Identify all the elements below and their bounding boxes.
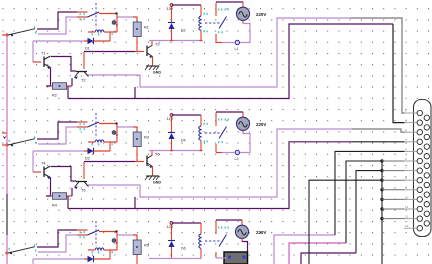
svg-text:13: 13	[405, 224, 409, 228]
wire R4 right lead	[67, 195, 73, 197]
wire base feed (violet vertical)	[32, 151, 34, 172]
wire AC source top lead	[242, 2, 244, 8]
wire collector rail 3 (violet)	[149, 258, 201, 260]
relay K1 link (dashed)	[95, 3, 97, 28]
relay K2 link (dashed)	[95, 113, 97, 138]
svg-text:T1: T1	[41, 52, 45, 56]
svg-text:12V: 12V	[167, 225, 174, 229]
wire diode-to-coil vertical	[109, 142, 111, 151]
wire net A2 gray section	[352, 129, 405, 132]
wire relay coil bottom lead	[200, 141, 202, 151]
connector J1 pins 14-25	[424, 115, 429, 120]
power 12V node 3	[170, 222, 173, 225]
wire R2 left lead	[46, 85, 53, 87]
svg-text:T5: T5	[81, 189, 85, 193]
wire net A2: T5 to port (violet)	[88, 129, 352, 197]
ground GND 2	[145, 176, 159, 180]
pin label contact RL2 bottom	[218, 141, 219, 143]
node bus junction 7	[380, 217, 383, 220]
net flag arrow	[2, 132, 7, 134]
wire ground bus vertical	[381, 160, 383, 264]
node bus junction 5	[380, 198, 383, 201]
pin label coil K3	[92, 251, 93, 253]
wire bus lead 7	[382, 218, 405, 220]
node junction	[115, 12, 117, 14]
switch S3 blade	[8, 247, 35, 253]
wire net B1 verticals (dark purple)	[134, 87, 136, 99]
pin label coil RL2	[204, 123, 205, 125]
relay K2 contact blade	[88, 122, 100, 127]
wire net B1: to port (dark purple)	[68, 24, 393, 99]
switch S3 pivot	[10, 252, 12, 254]
wire base red lead	[135, 51, 144, 53]
svg-text:11: 11	[405, 205, 408, 209]
wire T1 base red lead	[33, 61, 41, 63]
wire dark overlay segment on rail	[6, 194, 8, 235]
wire 12V to relay coil (purple)	[172, 114, 202, 116]
wire net B2 verticals (dark purple)	[134, 197, 136, 209]
wire net A1 gray section	[350, 18, 405, 113]
wire bus lead 1	[382, 160, 405, 162]
resistor R4	[53, 193, 67, 200]
relay K1 coil	[95, 30, 104, 32]
wire diode row (violet)	[33, 150, 84, 152]
wire aux vertical red	[116, 15, 118, 33]
resistor R5	[133, 240, 141, 255]
relay K3 contact blade	[88, 230, 100, 235]
wire contact to motor (violet)	[216, 257, 227, 259]
wire net C3 black section	[356, 171, 381, 253]
wire coil right lead	[104, 141, 117, 143]
AC source V1 220V	[236, 7, 249, 20]
wire net A3 riser (violet)	[274, 235, 335, 264]
wire contact K1 bottom red lead	[77, 16, 88, 18]
wire net D3 riser (black)	[309, 180, 381, 264]
wire load loop (violet)	[240, 134, 250, 153]
pin label contact RL3	[218, 227, 219, 229]
wire coil left lead	[88, 249, 95, 251]
wire R3 top lead	[133, 127, 137, 132]
wire T4 emitter down	[50, 178, 52, 197]
wire T4 collector to T5 (maroon)	[51, 167, 76, 182]
wire load loop (violet)	[240, 24, 250, 43]
wire R2 right up to T2	[71, 78, 73, 86]
pin label contact K2 bottom	[80, 128, 81, 130]
pin label coil RL1	[204, 13, 205, 15]
relay contact RL1 blade	[219, 17, 227, 29]
connector J1 pins 1-13	[417, 110, 422, 115]
wire coil right lead	[104, 31, 117, 33]
relay RL3 linkage (dashed)	[205, 240, 222, 242]
wire bus lead 4	[382, 189, 405, 191]
wire base bus (dark purple)	[84, 161, 135, 163]
wire coil left lead	[88, 31, 95, 33]
node bus junction 6	[380, 207, 383, 210]
wire T5 collector up (red)	[83, 162, 85, 179]
wire lamp L2 left (violet)	[222, 152, 235, 154]
component auxiliary contact 1	[112, 21, 116, 25]
relay K2 coil	[95, 140, 104, 142]
diode D5	[88, 256, 94, 262]
wire AC source 3 top lead	[241, 220, 243, 226]
svg-text:D3: D3	[85, 157, 90, 161]
svg-text:T2: T2	[81, 79, 85, 83]
wire diode D3 cathode lead	[94, 150, 111, 152]
wire T4 base red lead	[33, 171, 41, 173]
switch S1 blade	[8, 29, 35, 35]
wire relay coil top lead	[200, 115, 202, 126]
relay contact RL2 blade	[219, 127, 227, 139]
wire base red lead	[135, 161, 144, 163]
wire base bus (dark purple)	[84, 51, 135, 53]
svg-text:12V: 12V	[167, 7, 174, 11]
node rail tap 1	[5, 34, 9, 36]
zener diode D2	[168, 22, 175, 24]
switch S1 red stub	[2, 34, 8, 36]
switch S2 red stub	[2, 144, 8, 146]
switch S2 blade	[8, 139, 35, 145]
wire T6 emitter stub	[152, 167, 154, 177]
wire R1 bottom lead	[136, 37, 138, 52]
motor M1 terminal right	[243, 256, 246, 259]
wire contact to AC source (dark purple)	[216, 111, 243, 113]
wire T3 emitter stub	[152, 57, 154, 67]
svg-text:T4: T4	[41, 162, 45, 166]
transistor T6	[146, 156, 148, 167]
wire contact K1 common (red)	[99, 13, 117, 15]
wire bus lead 3	[382, 179, 405, 181]
wire diode row 3 (violet)	[33, 258, 84, 260]
diode D3	[88, 148, 94, 154]
wire net A1: T2 to port (violet)	[88, 18, 350, 87]
wire zener D2 bottom lead	[171, 29, 173, 41]
wire T1 collector to T2 (maroon)	[51, 57, 76, 72]
svg-text:220V: 220V	[256, 12, 266, 17]
node bus junction 1	[380, 159, 383, 162]
svg-text:220V: 220V	[256, 122, 266, 127]
wire contact K2 common (red)	[99, 123, 117, 125]
wire diode D1 anode lead	[84, 40, 88, 42]
relay RL3 coil	[199, 234, 201, 248]
relay K1 contact blade	[88, 12, 100, 17]
pin label contact RL2	[218, 119, 219, 121]
wire to R5 (violet)	[117, 234, 134, 236]
transistor T3	[146, 46, 148, 57]
svg-text:T6: T6	[155, 153, 159, 157]
wire emitter-to-R4	[46, 195, 51, 197]
wire contact K2 top red lead	[77, 121, 88, 123]
pin label contact K3 top	[80, 231, 81, 233]
wire contact RL1 bottom lead	[215, 34, 217, 43]
pin tick pole 2	[9, 140, 10, 142]
wire upper throw to contact K2 top (dark purple)	[37, 122, 77, 139]
wire relay coil 3 top lead	[200, 223, 202, 234]
svg-text:R5: R5	[144, 244, 149, 248]
wire R3 bottom lead	[136, 147, 138, 162]
resistor R1	[133, 22, 141, 37]
svg-text:10: 10	[405, 195, 409, 199]
wire bus lead 5	[382, 198, 405, 200]
lamp L2	[235, 150, 239, 154]
wire diode row (violet)	[33, 40, 84, 42]
relay RL2 coil	[199, 126, 201, 140]
wire relay coil 3 bottom lead	[200, 249, 202, 259]
wire lamp L2 red lead	[216, 152, 222, 154]
wire T2 collector up (red)	[83, 52, 85, 69]
svg-text:D4: D4	[181, 139, 186, 143]
svg-text:12: 12	[405, 215, 409, 219]
wire lower throw to contact K3 bottom (violet)	[38, 235, 77, 252]
wire base feed (violet vertical)	[32, 41, 34, 62]
node bus junction 3	[380, 179, 383, 182]
transistor T5	[76, 181, 87, 183]
wire main supply rail (pink vertical)	[6, 34, 8, 264]
svg-text:D6: D6	[181, 247, 186, 251]
wire net B1 black section	[393, 24, 405, 123]
connector J1 body	[414, 100, 432, 237]
relay contact RL2 top lead	[215, 113, 217, 127]
wire diode D3 anode lead	[84, 150, 88, 152]
wire coil right lead	[104, 249, 117, 251]
wire to R1 (violet)	[117, 16, 134, 18]
wire aux vertical red	[116, 233, 118, 251]
pin label contact K2 top	[80, 123, 81, 125]
node bus junction 2	[380, 169, 383, 172]
wire lower throw to contact K2 bottom (violet)	[38, 127, 77, 144]
wire R4 left lead	[46, 195, 53, 197]
switch S1 pivot	[11, 34, 13, 36]
component auxiliary contact 3	[112, 239, 116, 243]
wire lower throw to contact K1 bottom (violet)	[38, 17, 77, 34]
wire to R3 (violet)	[117, 126, 134, 128]
motor M1 terminal left	[228, 256, 231, 259]
wire contact K1 top red lead	[77, 11, 88, 13]
svg-text:R4: R4	[52, 204, 57, 208]
wire AC source bottom lead	[242, 130, 244, 133]
wire upper throw to contact K1 top (dark purple)	[37, 12, 77, 29]
switch S2 throw ticks	[34, 136, 35, 138]
wire contact K3 top red lead	[77, 229, 88, 231]
node rail tap 2	[5, 144, 9, 146]
resistor R3	[133, 132, 141, 147]
wire diode-to-coil vertical	[109, 32, 111, 41]
wire 12V to relay coil (purple)	[172, 4, 202, 6]
wire net B3 black section	[346, 161, 381, 243]
pin label contact RL1 bottom	[218, 31, 219, 33]
power 12V node 1	[170, 4, 173, 7]
relay RL2 linkage (dashed)	[205, 132, 222, 134]
node junction	[115, 122, 117, 124]
svg-text:R1: R1	[144, 26, 149, 30]
wire contact RL3 bottom lead	[215, 252, 217, 258]
wire zener D6 bottom lead	[171, 247, 173, 259]
svg-text:R2: R2	[52, 94, 57, 98]
wire relay coil bottom lead	[200, 31, 202, 41]
relay RL1 coil	[199, 16, 201, 30]
svg-text:220V: 220V	[256, 230, 266, 235]
wire R5 top lead	[133, 235, 137, 240]
node zener junction	[170, 40, 173, 42]
relay K3 coil	[95, 248, 104, 250]
zener diode D6	[168, 240, 175, 242]
svg-text:R3: R3	[144, 136, 149, 140]
wire base feed 3 (violet vertical)	[32, 259, 34, 264]
svg-text:L1: L1	[235, 47, 239, 51]
motor M1	[224, 252, 248, 264]
wire bus lead 2	[382, 170, 405, 172]
wire diode D1 cathode lead	[94, 40, 111, 42]
wire contact RL2 bottom lead	[215, 144, 217, 153]
transistor T1	[44, 56, 51, 68]
wire zener D2 top lead	[171, 7, 173, 23]
wire contact to AC source (dark purple)	[216, 1, 243, 3]
wire contact K2 bottom red lead	[77, 126, 88, 128]
AC source V2 220V	[236, 117, 249, 130]
wire diode D5 anode lead	[84, 258, 88, 260]
svg-text:GND: GND	[153, 181, 161, 185]
wire R1 top lead	[133, 17, 137, 22]
diode D1	[88, 38, 94, 44]
wire R5 bottom lead	[136, 255, 138, 264]
svg-text:12V: 12V	[167, 117, 174, 121]
wire source to motor (dark purple)	[242, 242, 248, 253]
wire R2 right lead	[67, 85, 73, 87]
wire T3 collector stub	[151, 41, 153, 46]
pin label contact K1 bottom	[80, 18, 81, 20]
transistor T4	[44, 166, 51, 178]
transistor T2	[76, 71, 87, 73]
wire relay coil top lead	[200, 5, 202, 16]
relay contact RL3 top lead	[215, 221, 217, 235]
wire contact RL3 to AC source (dark purple)	[216, 219, 242, 221]
resistor R2	[53, 83, 67, 90]
wire T1 emitter down	[50, 68, 52, 87]
svg-text:L2: L2	[235, 157, 239, 161]
pin label coil	[92, 143, 93, 145]
relay RL1 linkage (dashed)	[205, 22, 222, 24]
pin label coil	[92, 33, 93, 35]
power 12V node 2	[170, 114, 173, 117]
wire net C3 riser (dark purple)	[301, 253, 356, 264]
wire lamp L1 left (violet)	[222, 42, 235, 44]
pin label contact K3 bottom	[80, 236, 81, 238]
relay contact RL3 blade	[219, 235, 227, 247]
wire coil left lead	[88, 141, 95, 143]
switch S2 pivot	[11, 144, 13, 146]
component auxiliary contact 2	[112, 131, 116, 135]
wire aux vertical red	[116, 125, 118, 143]
wire 12V to relay coil 3 (purple)	[172, 222, 202, 224]
wire collector rail (violet)	[149, 150, 201, 152]
pin tick pole 3	[9, 248, 10, 250]
wire lamp L1 red lead	[216, 42, 222, 44]
switch S1 throw ticks	[34, 26, 35, 28]
wire diode-to-coil vertical 3	[109, 250, 111, 259]
ground GND 1	[145, 66, 159, 70]
wire net B2: to port (dark purple)	[68, 142, 352, 209]
connector J1 pin leads	[404, 112, 417, 114]
node bus junction 4	[380, 188, 383, 191]
node rail tap 3	[5, 252, 9, 254]
switch S3 throw ticks	[34, 244, 35, 246]
svg-text:D1: D1	[85, 47, 90, 51]
wire net B2 black section	[352, 141, 405, 143]
wire emitter-to-R2	[46, 85, 51, 87]
wire bus lead 6	[382, 208, 405, 210]
wire contact K3 common (red)	[99, 231, 117, 233]
wire zener D6 top lead	[171, 225, 173, 241]
wire AC source bottom lead	[242, 20, 244, 23]
wire upper throw to contact K3 (dark purple)	[37, 230, 77, 247]
wire net B3 riser (pink)	[289, 243, 346, 264]
wire diode D5 cathode lead	[94, 258, 111, 260]
wire net A3 black section	[335, 151, 405, 235]
node zener junction	[170, 150, 173, 152]
svg-text:GND: GND	[153, 71, 161, 75]
wire zener D4 top lead	[171, 117, 173, 133]
relay contact RL1 top lead	[215, 3, 217, 17]
wire contact K3 bottom red lead	[77, 234, 88, 236]
wire collector rail (violet)	[149, 40, 201, 42]
wire AC source top lead	[242, 112, 244, 118]
AC source V3 220V	[235, 225, 248, 238]
node junction	[115, 230, 117, 232]
wire R4 right up to T5	[71, 188, 73, 196]
relay K3 link (dashed)	[95, 221, 97, 246]
wire AC source 3 bottom lead	[241, 238, 243, 241]
lamp L1	[235, 40, 239, 44]
zener diode D4	[168, 132, 175, 134]
wire T6 collector stub	[151, 151, 153, 156]
pin label contact K1 top	[80, 13, 81, 15]
pin label contact RL1	[218, 9, 219, 11]
wire zener D4 bottom lead	[171, 139, 173, 151]
svg-text:T3: T3	[155, 43, 159, 47]
svg-text:D2: D2	[181, 29, 186, 33]
